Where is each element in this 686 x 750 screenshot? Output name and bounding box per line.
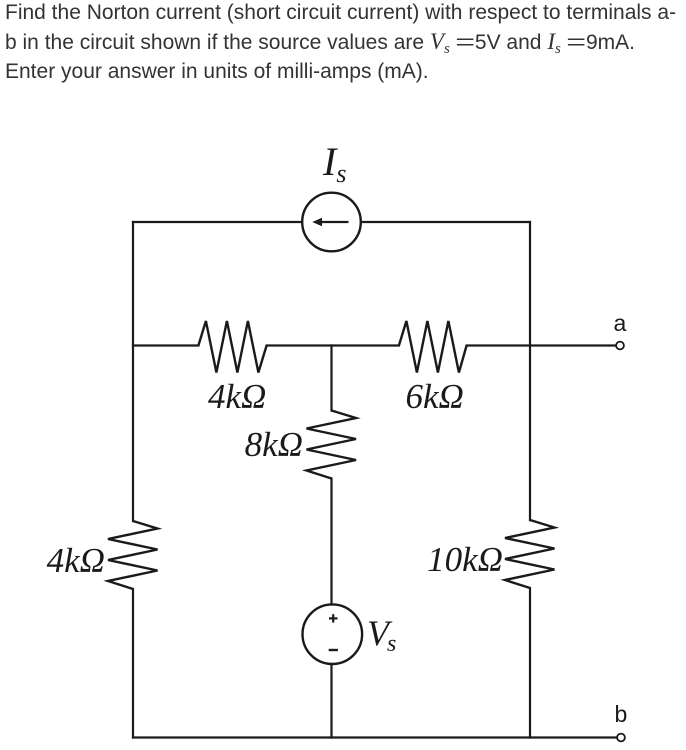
svg-text:10kΩ: 10kΩ xyxy=(427,540,503,579)
svg-text:b: b xyxy=(615,701,628,727)
wire right vertical upper xyxy=(529,222,531,520)
svg-text:8kΩ: 8kΩ xyxy=(245,425,303,464)
svg-text:6kΩ: 6kΩ xyxy=(406,377,464,416)
svg-text:4kΩ: 4kΩ xyxy=(208,377,266,416)
wire middle branch below source xyxy=(330,664,332,738)
resistor R1 4k horizontal xyxy=(198,321,266,373)
terminal a xyxy=(616,342,624,350)
resistor R2 6k horizontal xyxy=(399,321,467,373)
svg-text:4kΩ: 4kΩ xyxy=(47,541,105,580)
wire middle branch between resistor and source xyxy=(330,479,332,605)
svg-text:a: a xyxy=(614,310,627,336)
resistor R4 4k vertical left xyxy=(108,521,158,589)
svg-text:Is: Is xyxy=(322,139,346,188)
wire top-left segment xyxy=(133,221,302,223)
wire middle horizontal right to terminal a xyxy=(467,344,616,346)
wire right vertical lower xyxy=(529,588,531,738)
voltage source Vs xyxy=(303,604,363,664)
wire middle branch upper xyxy=(330,346,332,411)
wire left vertical lower xyxy=(132,589,134,738)
terminal b xyxy=(617,734,625,742)
svg-text:Vs: Vs xyxy=(367,613,396,657)
resistor R3 8k vertical xyxy=(307,411,357,479)
wire bottom xyxy=(133,736,617,738)
current source Is xyxy=(302,193,361,252)
resistor R5 10k vertical right xyxy=(505,520,555,588)
wire left vertical upper xyxy=(132,222,134,521)
wire top-right segment xyxy=(361,221,530,223)
wire middle horizontal left xyxy=(133,344,198,346)
wire middle horizontal center xyxy=(267,344,399,346)
